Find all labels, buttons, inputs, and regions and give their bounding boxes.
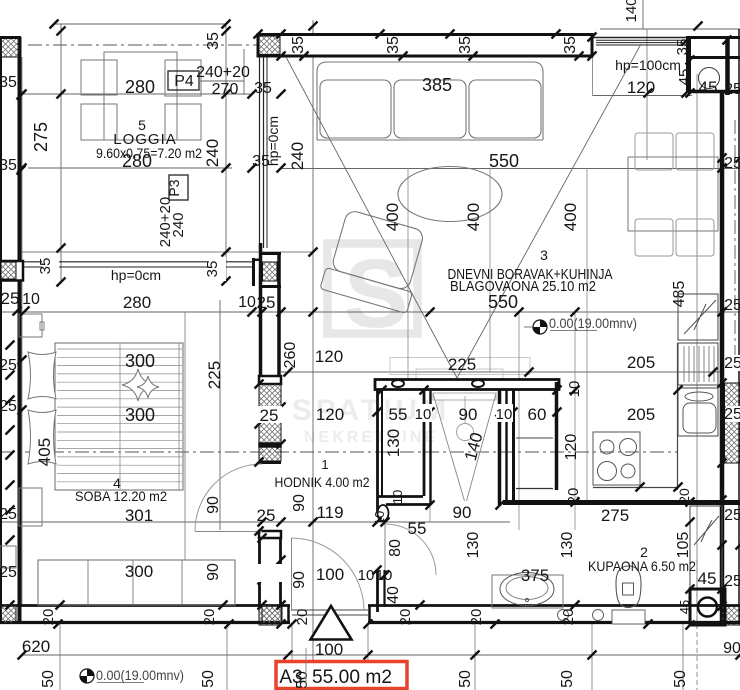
dim line loggia bottom 280 xyxy=(28,167,232,169)
bathroom left wall inner xyxy=(381,390,383,496)
svg-text:90: 90 xyxy=(459,405,478,424)
svg-text:25: 25 xyxy=(724,155,740,172)
svg-text:120: 120 xyxy=(563,434,580,461)
svg-text:20: 20 xyxy=(201,609,218,626)
svg-text:35: 35 xyxy=(562,36,579,54)
sink xyxy=(500,573,554,606)
hob burners xyxy=(600,440,614,454)
svg-text:90: 90 xyxy=(723,640,740,657)
svg-text:0.00(19.00mnv): 0.00(19.00mnv) xyxy=(96,667,184,683)
svg-text:40: 40 xyxy=(385,586,402,604)
svg-text:35: 35 xyxy=(205,32,222,50)
svg-text:3: 3 xyxy=(540,247,548,263)
bed right ext xyxy=(184,312,186,560)
backing 35 rot left xyxy=(42,255,59,277)
bed star decor xyxy=(122,369,154,401)
svg-text:0.00(19.00mnv): 0.00(19.00mnv) xyxy=(549,315,637,331)
drain circles xyxy=(558,610,569,621)
vert x60 bottom xyxy=(59,624,61,690)
window top edge xyxy=(592,37,688,39)
hatch right mid xyxy=(725,383,740,463)
box top cap xyxy=(259,252,281,255)
loggia chair BL xyxy=(81,104,117,140)
dim vert x697 xyxy=(696,74,698,629)
svg-text:SOBA 12.20 m2: SOBA 12.20 m2 xyxy=(75,488,167,504)
svg-text:NEKRETNINE: NEKRETNINE xyxy=(304,429,438,446)
svg-text:25: 25 xyxy=(724,507,740,524)
box bottom cap xyxy=(259,285,281,288)
level marker bottom xyxy=(80,667,184,683)
centreline horizontal y452 xyxy=(0,451,677,453)
vert x592 bottom xyxy=(591,624,593,690)
svg-text:120: 120 xyxy=(315,347,343,366)
wall edge right x279 xyxy=(277,252,281,378)
watermark logo square xyxy=(328,239,418,348)
svg-text:45: 45 xyxy=(677,600,692,614)
svg-text:240: 240 xyxy=(288,142,307,170)
bed xyxy=(55,343,183,490)
armchair xyxy=(320,208,430,314)
loggia sill line 3 xyxy=(22,251,313,253)
hatch mid wall lower xyxy=(259,447,281,461)
svg-text:620: 620 xyxy=(22,637,50,656)
backing 35 rot right xyxy=(209,257,226,281)
wall top band xyxy=(258,35,592,57)
svg-text:10: 10 xyxy=(238,294,256,311)
svg-text:35: 35 xyxy=(385,36,402,54)
svg-text:10: 10 xyxy=(358,567,375,584)
svg-text:10: 10 xyxy=(390,490,405,504)
svg-text:225: 225 xyxy=(205,361,224,389)
dim vert x643 top xyxy=(642,0,644,29)
pipe oval a xyxy=(392,380,404,387)
hatch top band left xyxy=(259,36,280,55)
wall mid lower left edge xyxy=(258,538,261,605)
hatch bottom entry xyxy=(262,605,282,623)
svg-text:385: 385 xyxy=(422,75,452,95)
P4 box xyxy=(168,71,199,90)
svg-text:35: 35 xyxy=(290,36,307,54)
svg-text:10: 10 xyxy=(376,567,393,584)
svg-text:100: 100 xyxy=(315,640,343,659)
svg-text:45: 45 xyxy=(698,569,717,588)
svg-text:25: 25 xyxy=(257,293,276,312)
svg-text:25: 25 xyxy=(724,406,740,423)
svg-text:60: 60 xyxy=(528,405,547,424)
svg-text:25: 25 xyxy=(257,506,276,525)
svg-text:35: 35 xyxy=(0,157,17,174)
dim vert bedroom 225 xyxy=(219,300,221,530)
svg-text:20: 20 xyxy=(560,609,577,626)
svg-text:P3: P3 xyxy=(166,179,182,196)
coffee table xyxy=(398,167,502,222)
hatch right bottom xyxy=(722,606,740,625)
backing 10 a xyxy=(415,404,432,422)
dim line 120 top right xyxy=(593,95,692,97)
kitchen sink unit xyxy=(678,388,718,436)
svg-text:140: 140 xyxy=(623,0,640,23)
wall niche xyxy=(0,546,16,568)
box left sub top xyxy=(252,259,262,262)
svg-text:hp=0cm: hp=0cm xyxy=(265,116,281,166)
loggia table xyxy=(104,52,177,140)
hob xyxy=(593,432,640,485)
window vert line c xyxy=(266,57,268,248)
svg-text:90: 90 xyxy=(453,503,472,522)
red highlight box A3 xyxy=(276,662,407,689)
nightstand knob xyxy=(40,322,44,330)
window top line c xyxy=(596,44,686,46)
svg-text:50: 50 xyxy=(457,670,474,688)
window corner ext xyxy=(592,57,594,96)
fridge tall unit xyxy=(678,294,718,340)
closet60 shelf xyxy=(516,437,553,439)
shower left wall a xyxy=(423,390,426,496)
hatch left top xyxy=(1,38,19,57)
closet60 right wall xyxy=(555,382,559,490)
closet45 bottom wall xyxy=(689,90,740,94)
dim line top right xyxy=(600,28,740,30)
wall right upper segment xyxy=(725,37,730,95)
vanity xyxy=(492,575,563,608)
svg-text:20: 20 xyxy=(397,609,414,626)
window top line b xyxy=(596,42,686,44)
svg-text:50: 50 xyxy=(559,670,576,688)
svg-text:400: 400 xyxy=(464,203,483,231)
sofa xyxy=(317,62,543,140)
svg-text:1: 1 xyxy=(321,457,328,472)
svg-text:55: 55 xyxy=(408,519,427,538)
faint niche rect b xyxy=(416,369,503,382)
entry threshold a xyxy=(292,609,368,611)
bath sw step upper xyxy=(377,495,423,498)
svg-text:P4: P4 xyxy=(174,73,194,90)
svg-text:240: 240 xyxy=(170,212,187,237)
centreline top wall xyxy=(28,44,590,46)
closet60 left wall xyxy=(512,390,515,503)
svg-text:240: 240 xyxy=(203,139,222,167)
closet60 bottom xyxy=(516,488,553,490)
svg-text:130: 130 xyxy=(465,532,482,559)
dim vert x313 xyxy=(312,20,314,660)
svg-text:25: 25 xyxy=(0,357,17,374)
svg-text:25: 25 xyxy=(0,564,17,581)
vert x227 bottom xyxy=(226,624,228,690)
svg-text:55.00 m2: 55.00 m2 xyxy=(312,667,392,688)
svg-text:205: 205 xyxy=(627,353,655,372)
door jamb wall stub b xyxy=(383,570,385,607)
svg-text:301: 301 xyxy=(125,506,153,525)
svg-text:375: 375 xyxy=(521,566,549,585)
svg-text:HODNIK 4.00 m2: HODNIK 4.00 m2 xyxy=(275,474,370,490)
svg-text:KUPAONA 6.50 m2: KUPAONA 6.50 m2 xyxy=(588,558,696,574)
vert line red box xyxy=(305,648,307,690)
svg-text:10: 10 xyxy=(372,511,387,525)
wall mid lower right edge xyxy=(279,538,282,605)
svg-text:90: 90 xyxy=(291,571,308,589)
backing 25 right d2 xyxy=(726,406,740,422)
wall divider mid xyxy=(259,443,281,447)
washing machine xyxy=(690,589,725,625)
window vert line b xyxy=(263,57,265,248)
svg-text:120: 120 xyxy=(316,405,344,424)
svg-text:80: 80 xyxy=(387,539,404,557)
hatch bottom left xyxy=(1,605,16,623)
vert x575 xyxy=(574,312,576,530)
left wall inner face xyxy=(21,57,23,604)
svg-text:275: 275 xyxy=(601,506,629,525)
svg-text:45: 45 xyxy=(676,69,693,86)
bedroom door xyxy=(195,464,262,531)
vert x647 xyxy=(646,29,648,160)
svg-text:25: 25 xyxy=(724,355,740,372)
section vert x697 dashed xyxy=(696,560,698,690)
svg-text:55: 55 xyxy=(389,405,408,424)
hatch loggia corner xyxy=(263,262,278,281)
loggia chair TR xyxy=(165,60,201,96)
entry door xyxy=(291,538,364,611)
nightstand bottom xyxy=(19,488,42,526)
svg-text:130: 130 xyxy=(559,532,576,559)
loggia sill line 1 xyxy=(24,261,252,263)
svg-text:90: 90 xyxy=(205,563,222,581)
wall box left mid xyxy=(0,261,23,281)
svg-text:hp=100cm: hp=100cm xyxy=(615,57,681,73)
svg-text:260: 260 xyxy=(282,342,299,369)
wall cap mid lower xyxy=(259,531,281,538)
wall top right corner xyxy=(686,36,740,39)
svg-text:35: 35 xyxy=(674,39,691,56)
vert x430 xyxy=(429,390,431,522)
dim vert x408 xyxy=(407,168,409,381)
bathroom top wall xyxy=(375,380,559,390)
dim line row y522 xyxy=(0,521,510,523)
wall stub x727 xyxy=(726,37,729,58)
P3 box xyxy=(169,175,188,200)
wall right exterior xyxy=(720,93,725,624)
svg-text:90: 90 xyxy=(291,494,308,512)
wall top right lower xyxy=(690,56,740,59)
svg-text:20: 20 xyxy=(40,609,57,626)
svg-text:550: 550 xyxy=(489,151,519,171)
wall x506 xyxy=(505,390,507,505)
loggia chair TL xyxy=(81,60,117,95)
vert x519 xyxy=(518,312,520,530)
pillow bottom xyxy=(28,410,56,464)
bath mat xyxy=(612,610,645,624)
svg-text:240+20: 240+20 xyxy=(196,64,250,81)
svg-text:50: 50 xyxy=(200,670,217,688)
loggia chair BR xyxy=(165,104,201,140)
bottom wall top edge left xyxy=(0,604,290,607)
svg-text:50: 50 xyxy=(294,671,311,689)
pipe oval c xyxy=(378,505,389,521)
svg-text:20: 20 xyxy=(676,488,692,504)
svg-text:105: 105 xyxy=(675,532,692,559)
svg-text:300: 300 xyxy=(125,351,155,371)
svg-text:405: 405 xyxy=(35,438,54,466)
dim vert x61 xyxy=(60,24,62,283)
svg-text:50: 50 xyxy=(672,670,689,688)
svg-text:130: 130 xyxy=(384,429,403,457)
wall cap mid xyxy=(259,461,281,464)
svg-text:275: 275 xyxy=(31,122,51,152)
svg-text:280: 280 xyxy=(125,77,155,97)
svg-text:10: 10 xyxy=(22,291,40,308)
bed edge line xyxy=(178,343,180,490)
svg-text:10: 10 xyxy=(496,406,513,423)
vert x475 bottom xyxy=(474,624,476,690)
entry dim 100 xyxy=(287,654,368,656)
chair top right xyxy=(676,133,714,170)
svg-text:270: 270 xyxy=(212,81,239,98)
dim line living 550 xyxy=(281,168,740,170)
svg-text:25: 25 xyxy=(724,297,740,314)
svg-text:25: 25 xyxy=(724,573,740,590)
chair bottom right xyxy=(676,219,714,256)
boiler circle xyxy=(699,68,720,89)
chair top left xyxy=(635,133,673,170)
svg-text:25: 25 xyxy=(724,81,740,98)
diagonal sight line right xyxy=(457,44,641,378)
tall unit bottom right xyxy=(690,506,722,589)
shower xyxy=(433,393,496,400)
svg-text:20: 20 xyxy=(294,609,311,626)
wall cap mid top xyxy=(259,376,281,384)
bottom wall bottom edge right xyxy=(368,621,740,624)
dim line row y372 xyxy=(281,371,722,373)
loggia sill line 2 xyxy=(24,266,252,268)
svg-text:25: 25 xyxy=(0,398,17,415)
bath sw step lower xyxy=(386,503,430,506)
svg-text:20: 20 xyxy=(468,609,485,626)
box left sub edge xyxy=(252,258,255,286)
dim vert x226 xyxy=(225,24,227,283)
svg-text:35: 35 xyxy=(37,258,54,275)
shower left wall b xyxy=(429,390,431,504)
svg-text:25: 25 xyxy=(0,506,17,523)
svg-text:400: 400 xyxy=(383,203,402,231)
svg-text:300: 300 xyxy=(125,562,153,581)
diagonal sight line left xyxy=(286,57,457,378)
nightstand top xyxy=(19,314,42,337)
window top line a xyxy=(596,39,686,41)
hatch mid wall bottom xyxy=(259,605,281,625)
door jamb wall stub xyxy=(376,570,379,612)
svg-text:BLAGOVAONA 25.10 m2: BLAGOVAONA 25.10 m2 xyxy=(450,278,596,295)
dim line loggia top xyxy=(54,23,226,25)
bed fold line xyxy=(119,343,121,490)
wall right outer edge xyxy=(738,29,740,624)
centreline right x735 xyxy=(734,120,736,360)
svg-text:50: 50 xyxy=(40,670,57,688)
backing 10 b xyxy=(496,404,513,422)
svg-text:35: 35 xyxy=(204,261,221,278)
dim line bottom row xyxy=(22,654,740,656)
svg-text:120: 120 xyxy=(627,78,655,97)
dining table xyxy=(628,157,718,231)
svg-text:35: 35 xyxy=(0,74,17,91)
wall left outer edge xyxy=(0,37,2,624)
svg-text:400: 400 xyxy=(561,203,580,231)
svg-text:25: 25 xyxy=(1,289,20,308)
hatch mid wall upper xyxy=(259,384,281,443)
svg-text:35: 35 xyxy=(457,36,474,54)
bathroom left wall outer xyxy=(376,390,379,512)
faint niche rect a xyxy=(390,358,530,375)
svg-text:20: 20 xyxy=(565,488,582,505)
svg-text:90: 90 xyxy=(205,496,222,514)
wardrobe xyxy=(38,560,235,605)
sofa front xyxy=(317,139,543,141)
chair bottom left xyxy=(635,219,673,256)
counter edge xyxy=(677,343,679,490)
entry threshold b xyxy=(292,614,368,616)
bottom wall top edge right xyxy=(368,604,740,607)
dim line row y312 xyxy=(0,311,740,313)
svg-text:45: 45 xyxy=(699,78,718,97)
svg-text:119: 119 xyxy=(316,503,343,522)
svg-text:100: 100 xyxy=(316,565,344,584)
svg-text:S: S xyxy=(344,239,409,348)
backing 25 midwall xyxy=(258,406,282,423)
wall cap left top xyxy=(0,36,21,39)
svg-text:300: 300 xyxy=(125,405,155,425)
window leader vert xyxy=(243,49,245,95)
svg-text:225: 225 xyxy=(448,355,476,374)
shower right wall xyxy=(498,390,502,505)
svg-text:280: 280 xyxy=(123,293,151,312)
hatch left mid xyxy=(1,262,16,279)
svg-text:550: 550 xyxy=(488,292,518,312)
dishwasher xyxy=(678,343,718,385)
entry jamb right xyxy=(368,605,371,624)
entrance triangle xyxy=(311,606,352,640)
svg-text:9.60x0.75=7.20 m2: 9.60x0.75=7.20 m2 xyxy=(96,145,202,161)
entry jamb left xyxy=(287,605,290,624)
dim line loggia 280 xyxy=(20,93,250,95)
svg-text:hp=0cm: hp=0cm xyxy=(111,267,161,283)
pillow top xyxy=(28,352,56,399)
wall y502 xyxy=(503,500,740,505)
dim vert x490 xyxy=(489,168,491,372)
svg-text:10: 10 xyxy=(415,406,432,423)
toilet xyxy=(616,566,641,608)
vert x683 bottom xyxy=(682,624,684,690)
pipe oval b xyxy=(472,380,484,387)
window vert line a xyxy=(259,57,261,248)
bathroom door xyxy=(385,524,436,575)
svg-text:10: 10 xyxy=(566,381,583,398)
backing 25 lower xyxy=(255,564,288,582)
wall edge left x260 xyxy=(259,243,263,378)
backing 25 right d xyxy=(726,355,740,371)
level marker living xyxy=(524,315,637,334)
svg-text:485: 485 xyxy=(671,281,688,308)
P4 leader xyxy=(199,80,244,82)
svg-text:35: 35 xyxy=(254,80,272,97)
dim vert x587 xyxy=(586,168,588,502)
entry ext left xyxy=(291,624,293,662)
wall left exterior xyxy=(18,37,22,624)
wall joint x688 xyxy=(686,36,691,93)
svg-text:205: 205 xyxy=(627,405,655,424)
entry ext right xyxy=(367,624,369,662)
svg-text:25: 25 xyxy=(260,406,279,425)
bottom wall bottom edge left xyxy=(0,621,290,624)
